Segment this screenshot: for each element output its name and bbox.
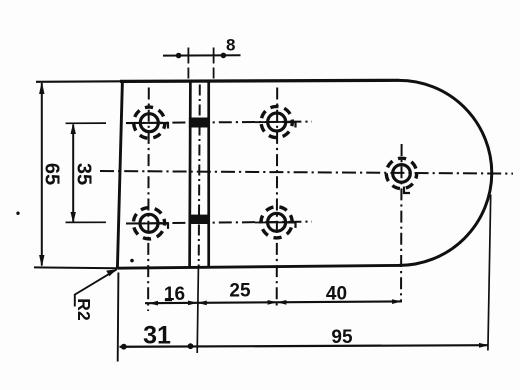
hole lower-left bore	[140, 214, 158, 232]
hole lower-right crosshair	[255, 221, 288, 223]
wire plate left edge	[117, 81, 122, 268]
dimension 8 line	[163, 54, 241, 56]
svg-text:R2: R2	[74, 298, 94, 321]
dimension 8 dot arrowheads	[176, 53, 182, 59]
dimension chain 16-25-40 line	[145, 301, 402, 303]
centerline big hole vertical	[400, 144, 403, 302]
wire hinge pin axis extension below	[197, 268, 198, 353]
dimension 31-95 line	[120, 345, 489, 347]
svg-text:31: 31	[143, 322, 171, 350]
wire plate bottom edge	[117, 265, 399, 268]
hinge knuckle gap band upper	[189, 118, 210, 128]
dimension 35 arrowheads	[71, 123, 76, 134]
wire plate top edge	[120, 80, 399, 81]
centerline main horizontal axis	[100, 171, 513, 174]
hole lower-right bore	[268, 213, 286, 231]
centerline left holes vertical	[147, 88, 150, 312]
hole upper-left countersink dashed	[134, 107, 165, 138]
hole lower-left countersink dashed	[133, 208, 164, 239]
31-95 arrowheads	[121, 344, 127, 350]
dimension 65 line	[41, 83, 43, 266]
hole lower-left crosshair	[127, 222, 161, 224]
hole upper-right crosshair	[255, 121, 288, 123]
wire hinge barrel right line	[207, 81, 210, 267]
speck in plate corner	[130, 259, 134, 263]
hinge knuckle gap band lower	[189, 215, 210, 224]
hole lower-right countersink dashed	[261, 207, 292, 238]
dimension 8 extension ticks	[187, 48, 189, 64]
hole big right bore	[393, 165, 411, 183]
svg-text:25: 25	[229, 281, 251, 302]
chain arrowheads	[149, 301, 158, 306]
svg-text:16: 16	[164, 284, 185, 305]
hole upper-right countersink dashed	[261, 106, 292, 137]
arc rounded right end	[399, 80, 492, 265]
hole upper-right bore	[268, 113, 286, 131]
svg-text:8: 8	[226, 36, 235, 55]
wire bottom edge extension line (65 dim)	[34, 266, 117, 269]
centerline hole row upper	[126, 122, 312, 123]
leader R2	[75, 269, 117, 306]
centerline hinge pin axis	[199, 85, 200, 267]
hole big right hook mark	[404, 187, 410, 194]
hole big right countersink dashed	[386, 158, 416, 188]
centerline hole row lower	[126, 222, 312, 224]
centerline right holes vertical	[276, 88, 279, 308]
hole upper-left crosshair	[127, 122, 161, 124]
31-95 extension lines	[117, 273, 120, 362]
speck left margin	[16, 212, 19, 215]
dimension 65 arrowheads	[39, 82, 44, 95]
dimension 35 line	[72, 125, 74, 222]
dimension 35 extension lines	[66, 122, 107, 124]
svg-text:40: 40	[326, 284, 347, 305]
hole upper-left bore	[140, 114, 158, 132]
wire hinge barrel left line	[188, 81, 191, 267]
wire top edge extension line (65 dim)	[36, 80, 121, 83]
svg-text:95: 95	[331, 327, 353, 348]
svg-text:65: 65	[41, 163, 63, 185]
svg-text:35: 35	[73, 163, 95, 185]
